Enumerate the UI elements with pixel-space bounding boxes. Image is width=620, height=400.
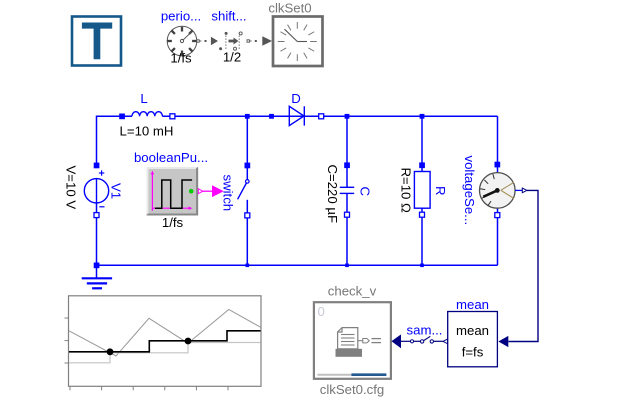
svg-text:V=10 V: V=10 V	[64, 166, 79, 210]
svg-text:mean: mean	[456, 323, 489, 338]
svg-text:R: R	[433, 186, 448, 196]
svg-text:voltageSe...: voltageSe...	[462, 156, 477, 226]
svg-text:f=fs: f=fs	[462, 345, 484, 360]
svg-text:1/fs: 1/fs	[162, 215, 184, 230]
svg-text:mean: mean	[456, 297, 489, 312]
svg-text:D: D	[291, 91, 301, 106]
svg-text:sam...: sam...	[407, 323, 443, 338]
svg-text:check_v: check_v	[328, 284, 377, 299]
svg-text:L: L	[140, 91, 147, 106]
svg-text:1/fs: 1/fs	[170, 51, 192, 66]
svg-text:0: 0	[318, 304, 325, 319]
svg-text:clkSet0: clkSet0	[268, 1, 311, 16]
svg-text:R=10 Ω: R=10 Ω	[399, 168, 414, 214]
svg-text:booleanPu...: booleanPu...	[134, 150, 208, 165]
svg-text:clkSet0.cfg: clkSet0.cfg	[320, 382, 385, 397]
svg-text:1/2: 1/2	[223, 50, 241, 65]
svg-text:switch: switch	[221, 175, 236, 212]
svg-text:C=220 µF: C=220 µF	[325, 165, 340, 224]
svg-text:shift...: shift...	[211, 9, 246, 24]
svg-text:V1: V1	[109, 183, 124, 199]
svg-text:perio...: perio...	[161, 9, 201, 24]
svg-text:L=10 mH: L=10 mH	[120, 124, 174, 139]
svg-text:C: C	[358, 187, 373, 197]
